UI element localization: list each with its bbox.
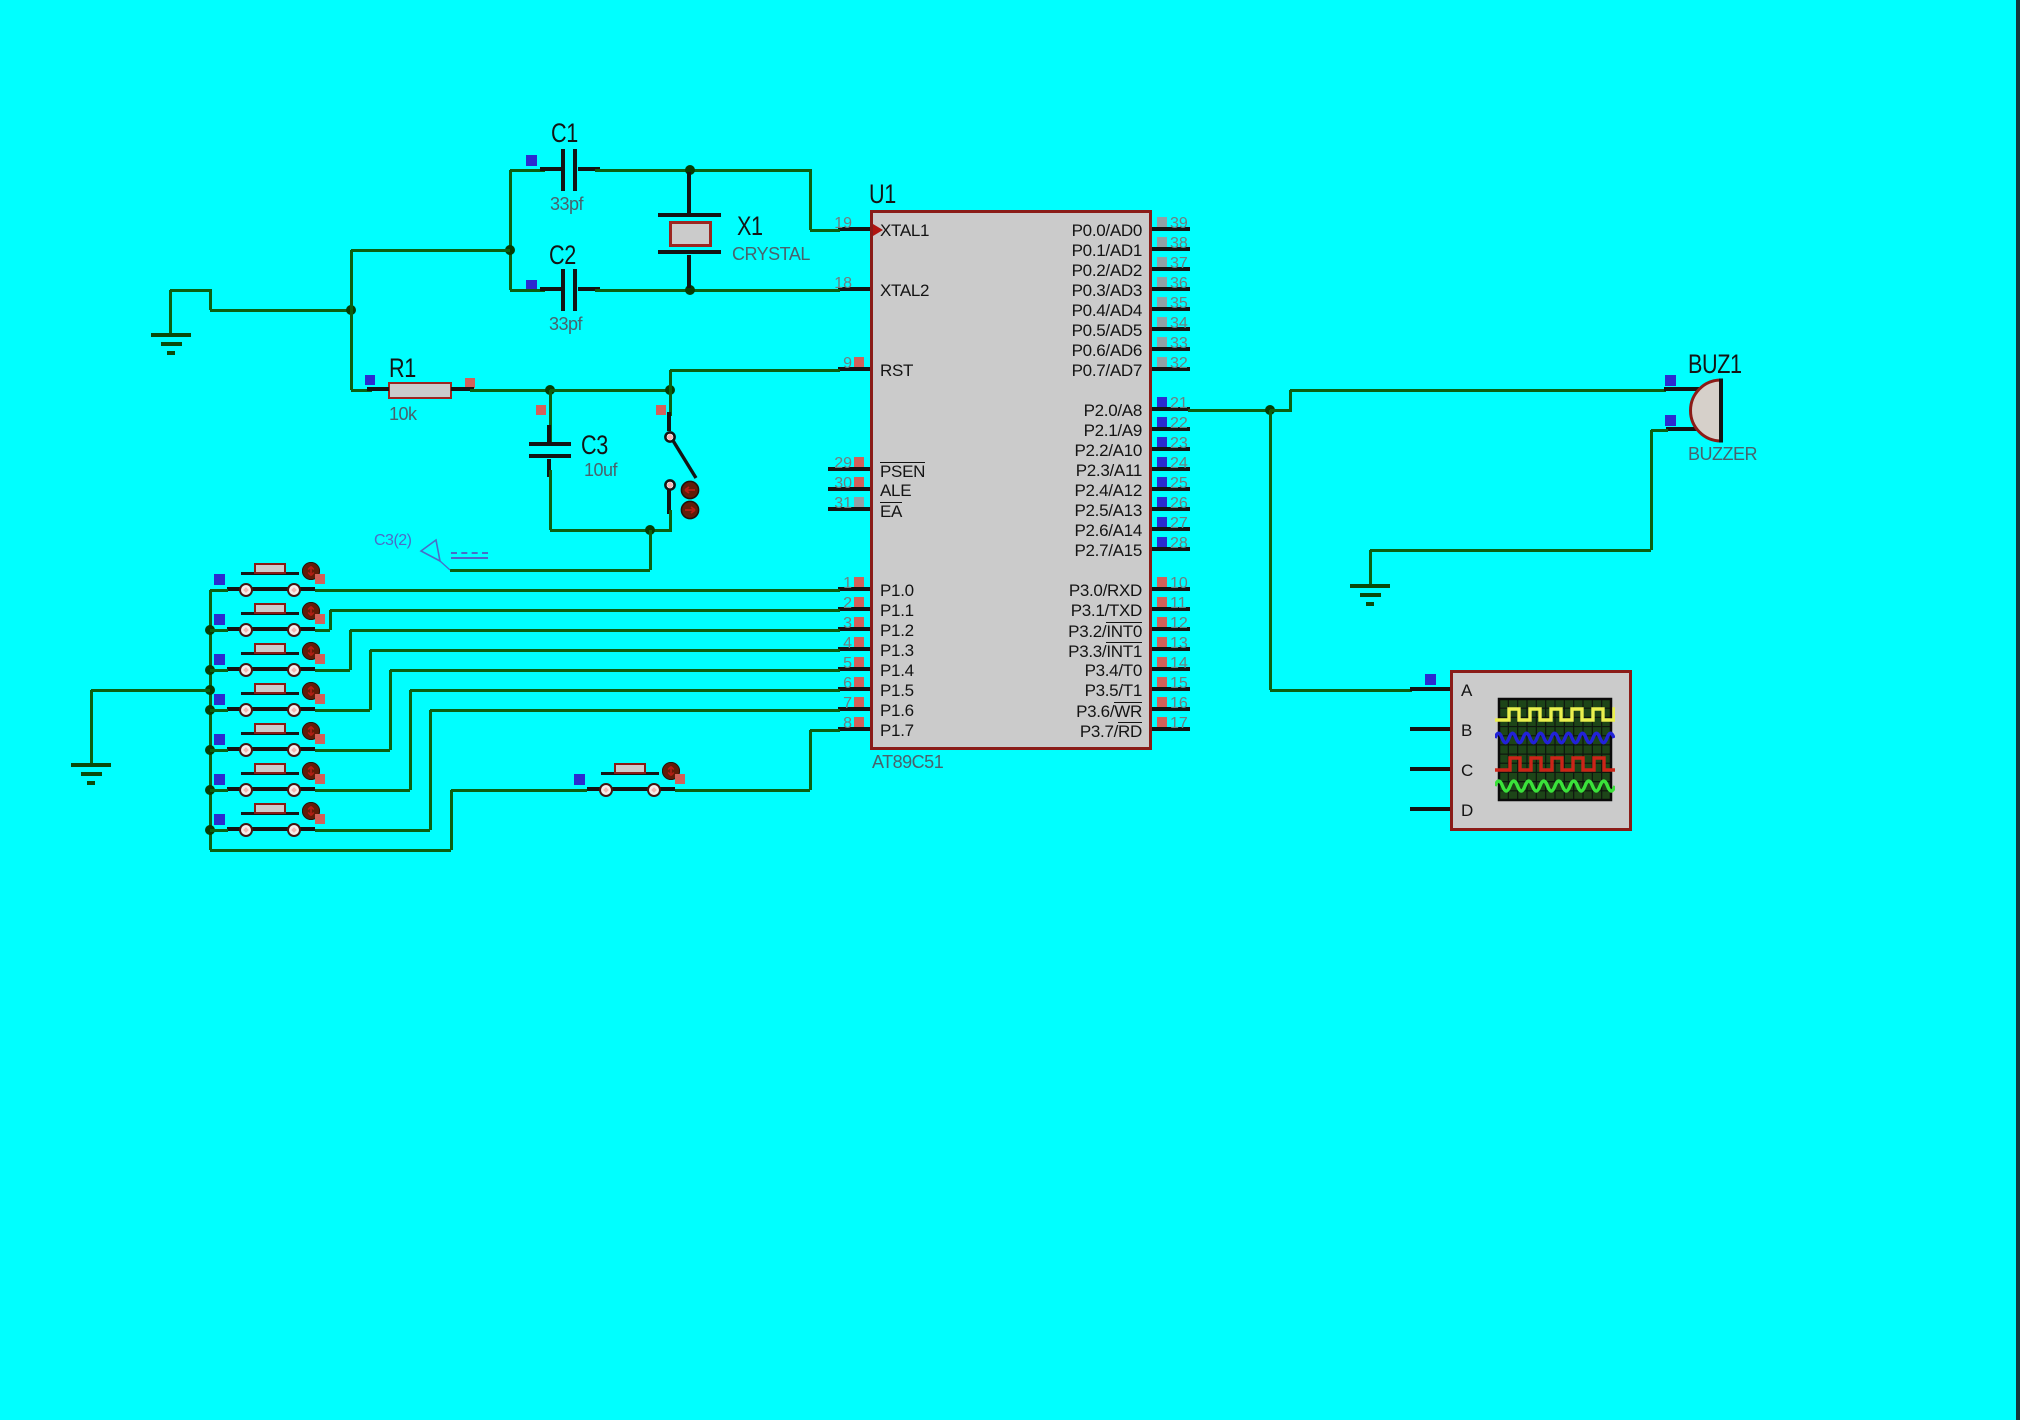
label C3 xyxy=(581,432,608,459)
oscilloscope channel label D xyxy=(1461,802,1473,819)
wire buzzer - to ground xyxy=(1651,429,1668,432)
U1 right pin 21 xyxy=(1152,407,1190,411)
wire P1.6 net xyxy=(315,829,430,832)
wire C3(2) net horizontal xyxy=(450,569,650,572)
oscilloscope channel label C xyxy=(1461,762,1473,779)
push button SW-P1.2 xyxy=(227,667,241,671)
push button SW-P1.3 xyxy=(227,707,241,711)
wire C2 left lead xyxy=(510,289,545,292)
node marker C3 (red) xyxy=(536,405,546,415)
net label C3(2) dashed underline xyxy=(451,552,488,554)
label U1 xyxy=(869,181,896,208)
junction node at C1/X1 top xyxy=(685,165,695,175)
switch SW1 (terminals, blade, actuators) xyxy=(640,420,720,530)
wire left bus joining C1 and C2 xyxy=(509,170,512,290)
wire button bus stubs to buttons xyxy=(210,589,228,592)
wire P2.0/A8 net from pin 21 xyxy=(1188,409,1272,412)
capacitor C2 plates xyxy=(561,269,565,311)
junction node button bus y=630 xyxy=(205,625,215,635)
net label C3(2) pointer triangle xyxy=(405,530,465,575)
oscilloscope input pin B xyxy=(1410,727,1450,731)
U1 right pin 39 xyxy=(1152,227,1190,231)
junction node on C1-C2 bus xyxy=(505,245,515,255)
node marker buzzer + (blue) xyxy=(1665,375,1676,386)
U1 left pin 9 RST xyxy=(838,367,870,371)
junction node button bus y=750 xyxy=(205,745,215,755)
wire P1.3 net xyxy=(315,709,370,712)
wire RST net to switch column xyxy=(550,389,672,392)
U1 left pin 18 XTAL2 xyxy=(838,287,870,291)
U1 right pin 15 xyxy=(1152,687,1190,691)
wire reset column riser xyxy=(350,250,353,390)
wire to RST pin 9 xyxy=(669,370,672,390)
U1 left pin 7 P1.6 xyxy=(838,707,870,711)
value label AT89C51 xyxy=(872,753,943,771)
junction node on reset column xyxy=(346,305,356,315)
wire C3(2) net down from junction xyxy=(649,530,652,570)
push button SW-P1.1 xyxy=(227,627,241,631)
oscilloscope screen with waveforms xyxy=(1495,697,1615,802)
oscilloscope channel label B xyxy=(1461,722,1472,739)
U1 left pin 5 P1.4 xyxy=(838,667,870,671)
value 10uf xyxy=(584,461,617,479)
U1 left pin 29 PSEN xyxy=(828,467,870,471)
wire button bus vertical xyxy=(209,590,212,850)
U1 left pin 3 P1.2 xyxy=(838,627,870,631)
U1 left pin 19 XTAL1 xyxy=(838,227,870,231)
U1 right pin 33 xyxy=(1152,347,1190,351)
ground symbol (buttons) xyxy=(71,763,111,767)
oscilloscope input pin C xyxy=(1410,767,1450,771)
wire ground spur from button bus xyxy=(91,689,210,692)
wire node X1 top to pin19 riser xyxy=(690,169,812,172)
U1 right pin 26 xyxy=(1152,507,1190,511)
wire P1.7 net xyxy=(675,789,810,792)
wire riser to XTAL1 pin 19 xyxy=(809,170,812,230)
label C1 xyxy=(551,120,578,147)
U1 right pin 35 xyxy=(1152,307,1190,311)
U1 left pin 8 P1.7 xyxy=(838,727,870,731)
U1 right pin 24 xyxy=(1152,467,1190,471)
U1 left pin 2 P1.1 xyxy=(838,607,870,611)
push button SW-P1.5 xyxy=(227,787,241,791)
label BUZ1 xyxy=(1688,351,1742,378)
wire button bus bottom run xyxy=(210,849,451,852)
junction node at C2/X1 bottom xyxy=(685,285,695,295)
U1 right pin 13 xyxy=(1152,647,1190,651)
U1 right pin 11 xyxy=(1152,607,1190,611)
push button SW-P1.7 xyxy=(587,787,601,791)
wire P1.1 net xyxy=(315,629,330,632)
push button SW-P1.0 xyxy=(227,587,241,591)
U1 right pin 34 xyxy=(1152,327,1190,331)
wire C1 left lead xyxy=(510,169,545,172)
oscilloscope body xyxy=(1450,670,1632,831)
switch top lead xyxy=(669,390,672,416)
junction node RST net at switch xyxy=(665,385,675,395)
wire C3 bottom to switch bottom xyxy=(550,529,672,532)
U1 left pin 4 P1.3 xyxy=(838,647,870,651)
XTAL1 clock input arrow xyxy=(873,224,883,236)
U1 right pin 28 xyxy=(1152,547,1190,551)
U1 left pin 1 P1.0 xyxy=(838,587,870,591)
U1 right pin 38 xyxy=(1152,247,1190,251)
label R1 xyxy=(389,355,416,382)
junction node button bus y=710 xyxy=(205,705,215,715)
U1 left pin 30 ALE xyxy=(828,487,870,491)
wire C2 right lead xyxy=(578,287,600,291)
capacitor C3 plates xyxy=(529,442,571,446)
U1 right pin 36 xyxy=(1152,287,1190,291)
wire X1 bottom pin xyxy=(687,255,691,288)
node marker switch top (red) xyxy=(656,405,666,415)
wire P1.5 net xyxy=(315,789,410,792)
junction node P2.0 net xyxy=(1265,405,1275,415)
junction node button bus y=830 xyxy=(205,825,215,835)
wire P1.0 net xyxy=(315,589,840,592)
push button SW-P1.6 xyxy=(227,827,241,831)
crystal X1 body xyxy=(669,221,712,247)
junction node button bus y=670 xyxy=(205,665,215,675)
U1 right pin 14 xyxy=(1152,667,1190,671)
U1 right pin 10 xyxy=(1152,587,1190,591)
oscilloscope channel label A xyxy=(1461,682,1472,699)
buzzer BUZ1 body xyxy=(1680,370,1735,450)
junction node button bus y=690 xyxy=(205,685,215,695)
U1 right pin 16 xyxy=(1152,707,1190,711)
wire R1 left lead xyxy=(351,389,372,392)
oscilloscope input pin D xyxy=(1410,807,1450,811)
switch bottom lead xyxy=(667,489,671,514)
U1 right pin 17 xyxy=(1152,727,1190,731)
window right edge strip xyxy=(2016,0,2020,1420)
wire ground step to oscillator bus xyxy=(169,290,172,336)
crystal X1 bottom electrode line xyxy=(658,250,721,254)
buzzer BUZ1 bottom pin xyxy=(1666,427,1698,431)
junction node C3(2) net xyxy=(645,525,655,535)
microcontroller U1 AT89C51 body xyxy=(870,210,1152,750)
wire top of reset column to C1/C2 bus xyxy=(351,249,510,252)
push button SW-P1.4 xyxy=(227,747,241,751)
ground symbol (buzzer) xyxy=(1350,584,1390,588)
wire P1.4 net xyxy=(315,749,390,752)
value BUZZER xyxy=(1688,445,1757,463)
node marker R1 left (blue) xyxy=(365,375,375,385)
value 10k xyxy=(389,405,417,423)
node marker scope A (blue) xyxy=(1425,674,1436,685)
buzzer BUZ1 top pin xyxy=(1664,387,1700,391)
U1 right pin 12 xyxy=(1152,627,1190,631)
node marker C2 left (blue) xyxy=(526,280,537,291)
crystal X1 top electrode line xyxy=(658,213,721,217)
U1 right pin 37 xyxy=(1152,267,1190,271)
wire C2 node to XTAL2 pin 18 xyxy=(690,289,840,292)
capacitor C3 bottom lead xyxy=(547,459,551,477)
capacitor C1 plates xyxy=(561,149,565,191)
value 33pf (C1) xyxy=(550,195,583,213)
wire P1.2 net xyxy=(315,669,350,672)
U1 left pin 31 EA xyxy=(828,507,870,511)
U1 right pin 22 xyxy=(1152,427,1190,431)
value CRYSTAL xyxy=(732,245,810,263)
wire X1 top pin xyxy=(687,172,691,214)
U1 right pin 23 xyxy=(1152,447,1190,451)
net label C3(2) text xyxy=(374,533,412,549)
U1 right pin 25 xyxy=(1152,487,1190,491)
wire P2.0 net to buzzer + xyxy=(1270,409,1292,412)
node marker buzzer - (blue) xyxy=(1665,415,1676,426)
wire P2.0 net to oscilloscope A xyxy=(1269,410,1272,690)
junction node RST net at C3 xyxy=(545,385,555,395)
wire R1 right lead xyxy=(451,387,474,391)
U1 right pin 27 xyxy=(1152,527,1190,531)
ground symbol (oscillator) xyxy=(151,333,191,337)
oscilloscope input pin A xyxy=(1410,687,1450,691)
U1 left pin 6 P1.5 xyxy=(838,687,870,691)
resistor R1 body xyxy=(388,382,452,399)
capacitor C3 top lead xyxy=(549,390,552,443)
node marker C1 left (blue) xyxy=(526,155,537,166)
U1 right pin 32 xyxy=(1152,367,1190,371)
wire C1 right lead to node xyxy=(578,167,600,171)
junction node button bus y=790 xyxy=(205,785,215,795)
label C2 xyxy=(549,242,576,269)
value 33pf (C2) xyxy=(549,315,582,333)
label X1 xyxy=(737,213,763,240)
node marker R1 right (red) xyxy=(465,378,475,388)
